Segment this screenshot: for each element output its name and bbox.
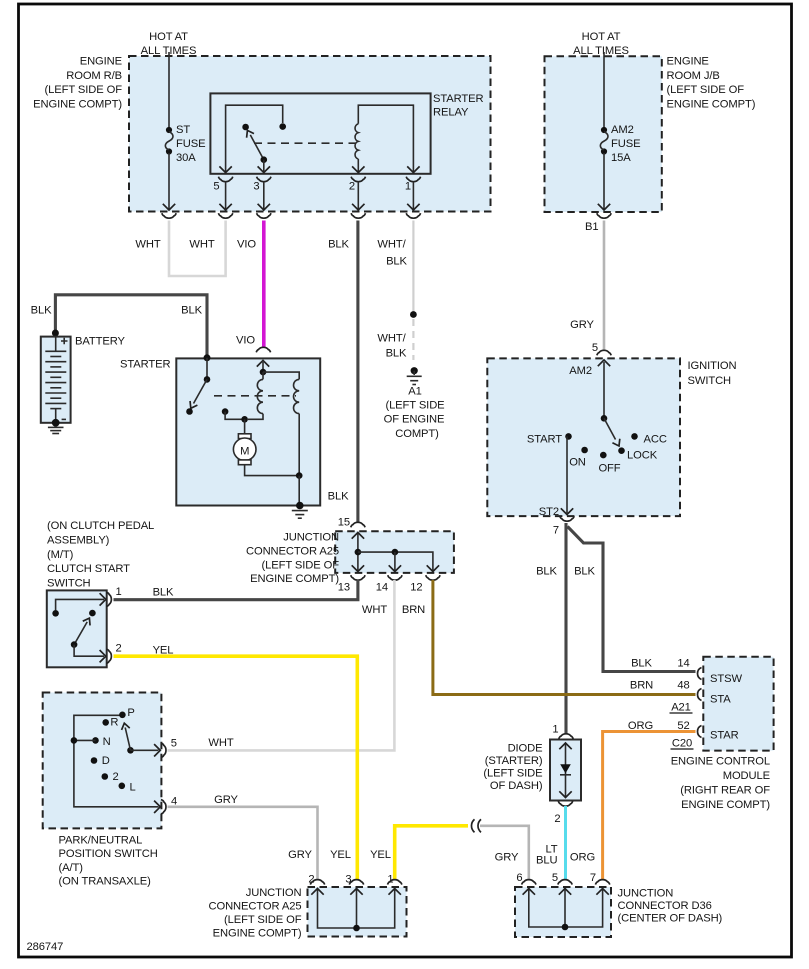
- svg-text:START: START: [527, 434, 562, 446]
- contact 2 dot: [102, 771, 119, 783]
- relay pin 3 leg: [261, 156, 268, 163]
- svg-text:CONNECTOR A25: CONNECTOR A25: [209, 901, 302, 913]
- svg-text:ST: ST: [176, 124, 190, 136]
- clutch pin 1 leg: [52, 599, 104, 616]
- svg-text:IGNITION: IGNITION: [688, 360, 737, 372]
- svg-text:ACC: ACC: [644, 434, 667, 446]
- svg-text:BRN: BRN: [630, 680, 653, 692]
- svg-text:MODULE: MODULE: [723, 770, 770, 782]
- diode pin 1: [552, 724, 573, 739]
- svg-text:CONNECTOR A25: CONNECTOR A25: [246, 546, 339, 558]
- svg-text:C20: C20: [672, 738, 692, 750]
- svg-text:6: 6: [516, 872, 522, 884]
- svg-text:(ON TRANSAXLE): (ON TRANSAXLE): [59, 876, 152, 888]
- svg-text:DIODE: DIODE: [508, 742, 543, 754]
- wire fuse to box edge: [603, 153, 605, 209]
- wire BLK ignition pin7 to ECM STSW: [568, 527, 696, 672]
- svg-text:5: 5: [552, 872, 558, 884]
- svg-text:STSW: STSW: [710, 673, 742, 685]
- ignition ST2 wire: [561, 436, 573, 514]
- svg-text:ALL TIMES: ALL TIMES: [573, 45, 629, 57]
- A25 bottom pin 2: [308, 874, 324, 886]
- contact P dot: [119, 707, 135, 719]
- diode internal: [559, 743, 571, 798]
- svg-text:(LEFT SIDE OF: (LEFT SIDE OF: [224, 914, 302, 926]
- svg-text:(RIGHT REAR OF: (RIGHT REAR OF: [680, 785, 770, 797]
- ECM box: [703, 657, 773, 751]
- svg-text:ASSEMBLY): ASSEMBLY): [47, 535, 110, 547]
- svg-text:ENGINE: ENGINE: [80, 56, 122, 68]
- wire BLK battery to starter: [55, 295, 207, 356]
- wire GRY P/N pin4 to A25 pin2: [168, 807, 318, 881]
- inline connector ((: [471, 819, 481, 832]
- starter pull-in coil: [248, 372, 263, 419]
- relay coil: [355, 105, 413, 173]
- engine room R/B box: [129, 56, 491, 212]
- svg-text:FUSE: FUSE: [176, 138, 205, 150]
- battery BT1: [41, 337, 71, 427]
- svg-text:WHT/: WHT/: [377, 333, 406, 345]
- junction connector A25 (top) label: [246, 532, 339, 586]
- svg-text:13: 13: [338, 582, 350, 594]
- svg-text:D: D: [102, 755, 110, 767]
- svg-text:R: R: [110, 717, 118, 729]
- svg-text:L: L: [130, 782, 136, 794]
- svg-text:(LEFT SIDE OF: (LEFT SIDE OF: [45, 84, 123, 96]
- relay pin 1: [405, 177, 421, 210]
- ECM pin STA: [698, 689, 732, 706]
- svg-text:B1: B1: [585, 221, 598, 233]
- svg-text:ENGINE COMPT): ENGINE COMPT): [681, 799, 770, 811]
- svg-text:WHT: WHT: [135, 239, 160, 251]
- svg-text:7: 7: [553, 525, 559, 537]
- svg-text:ENGINE CONTROL: ENGINE CONTROL: [671, 755, 770, 767]
- node C20: [671, 738, 694, 750]
- starter hold-in coil: [263, 372, 299, 476]
- clutch pin 2: [100, 643, 122, 664]
- starter switch arm: [187, 379, 207, 410]
- svg-text:BLK: BLK: [31, 305, 52, 317]
- R/B bottom connectors: [162, 213, 176, 218]
- svg-text:2: 2: [349, 181, 355, 193]
- relay contact dot: [279, 123, 286, 130]
- starter solenoid input dot: [204, 354, 211, 361]
- svg-text:(ON CLUTCH PEDAL: (ON CLUTCH PEDAL: [47, 520, 154, 532]
- svg-text:M: M: [240, 446, 249, 458]
- svg-text:STAR: STAR: [710, 730, 739, 742]
- ground A1: [407, 367, 422, 384]
- junction connector A25 (top) box: [335, 531, 454, 573]
- starter relay label: [433, 93, 483, 119]
- wire LT BLU diode to D36 pin5: [564, 806, 567, 881]
- svg-text:BLK: BLK: [153, 587, 174, 599]
- ECM pin STSW: [698, 668, 743, 686]
- svg-text:ENGINE COMPT): ENGINE COMPT): [250, 573, 339, 585]
- svg-text:STARTER: STARTER: [433, 93, 483, 105]
- svg-text:BLK: BLK: [631, 658, 652, 670]
- svg-text:OF ENGINE: OF ENGINE: [384, 414, 445, 426]
- D36 internal bus: [523, 889, 609, 931]
- svg-text:7: 7: [590, 872, 596, 884]
- ignition switch arm to LOCK: [604, 418, 623, 448]
- relay pin 3: [253, 177, 271, 210]
- svg-text:(LEFT SIDE: (LEFT SIDE: [385, 400, 444, 412]
- svg-text:14: 14: [677, 658, 689, 670]
- A25 bottom internal bus: [311, 889, 401, 932]
- svg-text:BRN: BRN: [402, 604, 425, 616]
- svg-text:PARK/NEUTRAL: PARK/NEUTRAL: [59, 834, 143, 846]
- ignition switch pin 5: [592, 342, 611, 355]
- starter M1 box: [176, 358, 320, 505]
- ground (battery): [48, 427, 64, 433]
- svg-text:VIO: VIO: [236, 335, 255, 347]
- svg-text:A21: A21: [671, 702, 691, 714]
- svg-text:ENGINE COMPT): ENGINE COMPT): [667, 98, 756, 110]
- svg-text:OF DASH): OF DASH): [490, 780, 543, 792]
- diode D1 (starter) box: [550, 740, 581, 801]
- starter ground junction dot: [296, 472, 303, 479]
- label BLK / 14 at ECM: [631, 658, 690, 670]
- engine room J/B label: [667, 56, 756, 111]
- relay actuation dashed link: [254, 142, 356, 144]
- svg-text:ON: ON: [569, 457, 586, 469]
- svg-text:ENGINE COMPT): ENGINE COMPT): [213, 928, 302, 940]
- relay pin 5: [213, 177, 232, 210]
- relay pin 2: [349, 177, 366, 210]
- svg-text:P: P: [127, 707, 134, 719]
- label WHT/BLK: [377, 239, 407, 268]
- svg-text:1: 1: [405, 181, 411, 193]
- svg-text:HOT AT: HOT AT: [149, 31, 188, 43]
- contact D dot: [91, 755, 110, 767]
- svg-text:ORG: ORG: [570, 852, 595, 864]
- A25 pin 13: [338, 575, 365, 593]
- P/N pin 4: [154, 796, 177, 815]
- junction connector A25 (bottom) box: [308, 887, 407, 937]
- svg-text:48: 48: [677, 680, 689, 692]
- relay switch arm: [250, 135, 263, 160]
- svg-text:N: N: [103, 736, 111, 748]
- wire from HOT AT into R/B: [168, 52, 170, 129]
- ignition pivot dot: [601, 415, 608, 422]
- svg-text:(CENTER OF DASH): (CENTER OF DASH): [618, 913, 723, 925]
- svg-text:15A: 15A: [611, 152, 631, 164]
- svg-text:STA: STA: [710, 694, 731, 706]
- ignition switch box: [487, 358, 680, 516]
- label LT BLU: [536, 844, 558, 867]
- clutch start switch S1 box: [47, 590, 107, 667]
- wire BLK A25 pin13 to clutch switch: [114, 580, 358, 600]
- A25 bottom pin 3: [345, 874, 363, 886]
- svg-text:ENGINE COMPT): ENGINE COMPT): [33, 98, 122, 110]
- wire WHT fuse-to-relay pin5 jumper: [169, 221, 226, 277]
- svg-text:WHT: WHT: [208, 737, 233, 749]
- starter dashed link: [214, 395, 296, 397]
- diode label: [483, 742, 542, 792]
- svg-text:2: 2: [116, 643, 122, 655]
- svg-text:BLK: BLK: [386, 348, 407, 360]
- wire BRN (over BLK crossing): [558, 693, 578, 696]
- svg-text:5: 5: [171, 738, 177, 750]
- svg-text:JUNCTION: JUNCTION: [246, 887, 302, 899]
- ECM pin STAR: [698, 726, 739, 742]
- contact LOCK dot: [618, 447, 625, 454]
- svg-text:WHT/: WHT/: [377, 239, 406, 251]
- wire YEL A25 pin1 to inline connector: [395, 826, 468, 881]
- svg-text:30A: 30A: [176, 152, 196, 164]
- clutch pin 1: [100, 586, 122, 607]
- node HOT AT ALL TIMES (right): [573, 31, 629, 57]
- D36 pin 6: [516, 872, 536, 885]
- wire BRN A25 pin12 to ECM: [433, 580, 696, 695]
- svg-text:GRY: GRY: [570, 319, 594, 331]
- svg-text:YEL: YEL: [370, 849, 391, 861]
- svg-text:A1: A1: [408, 386, 421, 398]
- wire WHT/BLK relay pin1: [410, 221, 417, 361]
- relay contact fixed leg (pin 5): [226, 105, 283, 173]
- svg-text:ROOM R/B: ROOM R/B: [66, 70, 122, 82]
- clutch contact dot: [89, 610, 96, 617]
- A25 bottom pin 1: [387, 874, 402, 886]
- svg-text:(M/T): (M/T): [47, 549, 74, 561]
- svg-text:BLK: BLK: [574, 566, 595, 578]
- starter fixed contact dot: [186, 408, 193, 415]
- contact N dot: [71, 736, 111, 748]
- wire WHT A25 pin14 to park/neutral switch: [168, 580, 395, 750]
- svg-text:5: 5: [213, 181, 219, 193]
- label GRY YEL YEL (A25 bottom): [288, 849, 391, 861]
- engine room J/B box: [545, 56, 662, 212]
- fuse ST 30A: [165, 124, 205, 164]
- contact OFF dot: [600, 452, 607, 459]
- svg-text:AM2: AM2: [611, 124, 634, 136]
- svg-text:GRY: GRY: [214, 794, 238, 806]
- svg-text:COMPT): COMPT): [395, 428, 439, 440]
- ignition switch label: [688, 360, 737, 387]
- label BRN / 48 at ECM: [630, 680, 690, 692]
- svg-text:2: 2: [554, 813, 560, 825]
- label ORG / 52 at ECM: [628, 720, 690, 732]
- svg-text:BATTERY: BATTERY: [75, 336, 125, 348]
- D36 pin 7: [590, 872, 610, 885]
- engine room R/B label: [33, 56, 122, 111]
- svg-text:AM2: AM2: [569, 365, 592, 377]
- wire from HOT AT into J/B: [603, 52, 605, 129]
- contact L dot: [119, 782, 136, 794]
- junction connector A25 (top) pin 15: [338, 517, 365, 529]
- svg-text:BLK: BLK: [328, 239, 349, 251]
- svg-text:STARTER: STARTER: [120, 359, 170, 371]
- svg-text:VIO: VIO: [237, 239, 256, 251]
- svg-text:BLK: BLK: [181, 305, 202, 317]
- svg-text:(STARTER): (STARTER): [485, 755, 543, 767]
- svg-text:BLK: BLK: [386, 256, 407, 268]
- wire VIO relay pin3 to starter: [262, 221, 266, 348]
- contact START dot: [565, 433, 572, 440]
- P/N pin 5: [154, 738, 177, 758]
- svg-text:HOT AT: HOT AT: [582, 31, 621, 43]
- A25 internal bus: [352, 533, 439, 572]
- svg-text:RELAY: RELAY: [433, 107, 469, 119]
- svg-text:(LEFT SIDE: (LEFT SIDE: [483, 767, 542, 779]
- relay contact pivot dot: [242, 124, 249, 131]
- svg-text:(LEFT SIDE OF: (LEFT SIDE OF: [262, 559, 340, 571]
- svg-text:ST2: ST2: [539, 506, 559, 518]
- P/N internal bus: [74, 715, 159, 807]
- wire YEL clutch pin2 to A25 pin3: [114, 656, 358, 880]
- starter relay U1 box: [210, 93, 430, 173]
- svg-text:14: 14: [376, 582, 388, 594]
- svg-text:FUSE: FUSE: [611, 138, 640, 150]
- svg-text:12: 12: [410, 582, 422, 594]
- clutch switch arm: [71, 616, 93, 648]
- node A21: [670, 702, 693, 714]
- svg-text:WHT: WHT: [189, 239, 214, 251]
- relay pin arrows at box bottom: [219, 166, 231, 172]
- wire fuse to box edge: [168, 153, 170, 209]
- P/N switch arm: [120, 722, 134, 753]
- motor M: [233, 419, 299, 475]
- node HOT AT ALL TIMES (left): [141, 31, 197, 57]
- svg-text:SWITCH: SWITCH: [688, 375, 732, 387]
- svg-text:2: 2: [113, 771, 119, 783]
- contact ON dot: [581, 447, 588, 454]
- A25 pin 12: [410, 575, 440, 593]
- ECM label: [671, 755, 771, 811]
- contact ACC dot: [631, 433, 638, 440]
- svg-text:15: 15: [338, 517, 350, 529]
- svg-text:LOCK: LOCK: [627, 450, 658, 462]
- wire ORG ECM STAR to D36 pin7: [603, 732, 696, 881]
- park/neutral label: [59, 834, 158, 887]
- svg-text:SWITCH: SWITCH: [47, 577, 91, 589]
- svg-text:OFF: OFF: [598, 463, 620, 475]
- junction connector D36 label: [618, 888, 723, 925]
- svg-text:(A/T): (A/T): [59, 862, 84, 874]
- park/neutral position switch box: [43, 693, 162, 829]
- svg-text:JUNCTION: JUNCTION: [283, 532, 339, 544]
- starter switch leg: [204, 358, 211, 383]
- D36 pin 5: [552, 872, 572, 885]
- starter connector (VIO entry): [256, 347, 270, 352]
- wire GRY B1 to ignition switch: [603, 221, 606, 351]
- starter VIO entry arrow: [257, 360, 269, 375]
- svg-text:1: 1: [116, 586, 122, 598]
- node A1 label: [384, 386, 445, 441]
- svg-text:GRY: GRY: [495, 852, 519, 864]
- svg-text:YEL: YEL: [330, 849, 351, 861]
- svg-text:CONNECTOR D36: CONNECTOR D36: [618, 900, 712, 912]
- wire GRY inline connector to D36 pin6: [480, 826, 529, 881]
- clutch pin 2 leg: [74, 645, 104, 657]
- starter motor junction dot: [241, 416, 248, 423]
- connector B1: [585, 213, 611, 233]
- svg-text:5: 5: [592, 342, 598, 354]
- svg-text:CLUTCH START: CLUTCH START: [47, 563, 130, 575]
- A25 pin 14: [376, 575, 402, 593]
- ignition AM2 arrow wire: [598, 360, 610, 418]
- svg-text:GRY: GRY: [288, 849, 312, 861]
- junction connector A25 (bottom) label: [209, 887, 302, 940]
- starter contact to motor node: [222, 408, 245, 419]
- fuse AM2 15A: [600, 124, 640, 164]
- svg-text:JUNCTION: JUNCTION: [618, 888, 674, 900]
- svg-text:WHT: WHT: [362, 604, 387, 616]
- diode pin 2: [554, 801, 572, 825]
- svg-text:BLK: BLK: [328, 491, 349, 503]
- wire BLK ignition pin7 to diode: [564, 523, 567, 734]
- svg-text:ROOM J/B: ROOM J/B: [667, 70, 720, 82]
- P/N pin 5 leg: [131, 749, 159, 751]
- label WHT/BLK (lower): [377, 333, 407, 360]
- svg-text:ENGINE: ENGINE: [667, 56, 709, 68]
- svg-text:286747: 286747: [27, 941, 64, 953]
- contact R dot: [102, 717, 118, 729]
- wire BLK relay pin2 to A25 pin15: [356, 221, 359, 524]
- battery junction dot: [52, 330, 59, 337]
- ignition pin 7: [553, 516, 574, 536]
- svg-text:BLK: BLK: [536, 566, 557, 578]
- svg-text:(LEFT SIDE OF: (LEFT SIDE OF: [667, 84, 745, 96]
- clutch switch label: [47, 520, 154, 589]
- svg-text:3: 3: [253, 181, 259, 193]
- ground (starter): [292, 502, 308, 519]
- svg-text:POSITION SWITCH: POSITION SWITCH: [59, 848, 158, 860]
- svg-text:BLU: BLU: [536, 855, 557, 867]
- starter ground wire: [298, 476, 300, 506]
- junction connector D36 box: [515, 887, 611, 937]
- svg-text:1: 1: [552, 724, 558, 736]
